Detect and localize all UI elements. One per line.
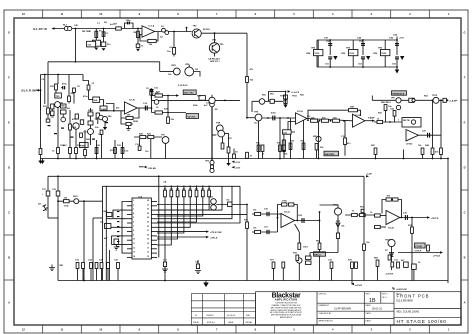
IC4 pin number marks left: [133, 200, 135, 258]
svg-text:TR6: TR6: [108, 116, 113, 118]
wire y218 inner: [93, 217, 103, 219]
svg-text:+FT.LE: +FT.LE: [433, 256, 441, 258]
wire IC6 input b: [374, 226, 386, 228]
wire elbow x83: [83, 75, 89, 86]
feedback loop IC6: [382, 200, 402, 218]
transistor TR1 internals: [195, 30, 199, 37]
regulator REG1: [314, 50, 323, 56]
junction bus a: [83, 280, 85, 282]
junction psu3b: [396, 66, 398, 68]
svg-text:R19: R19: [117, 145, 122, 147]
wire R64 top link: [295, 224, 300, 232]
wire C5 lead: [150, 95, 152, 99]
svg-text:REV.RE.2: REV.RE.2: [381, 102, 392, 104]
capacitor C9: [87, 85, 90, 90]
svg-text:OF 4: OF 4: [382, 297, 387, 299]
wire x159 vertical: [158, 176, 160, 257]
svg-text:REV: REV: [366, 294, 371, 296]
capacitor C2 bars: [127, 22, 129, 25]
svg-text:7915: 7915: [349, 53, 355, 55]
wire PSU left edge: [316, 40, 318, 67]
wire TR15 drop: [391, 247, 393, 270]
svg-text:AMPLIFICATION: AMPLIFICATION: [275, 298, 298, 302]
wire up x114: [106, 104, 114, 111]
wire bus a: [273, 268, 275, 280]
wire ladder1 drop: [164, 269, 166, 281]
wire branch lower: [252, 231, 278, 233]
junction: [173, 31, 175, 33]
resistor R11: [68, 96, 71, 102]
svg-text:IC5-A: IC5-A: [284, 210, 290, 213]
wire bus e: [377, 266, 379, 280]
capacitor C53: [361, 57, 365, 59]
ground left c: [114, 244, 119, 250]
ground arrow 1AFS: [283, 105, 287, 108]
junction x364 y215: [363, 214, 365, 216]
svg-text:10k: 10k: [149, 44, 153, 46]
junction x48: [75, 61, 77, 63]
wire R39: [316, 150, 318, 159]
box pair left b: [105, 224, 111, 229]
resistor RL4: [183, 190, 186, 197]
junction y201 b: [83, 200, 85, 202]
resistor RL6: [195, 190, 198, 197]
junction stub: [186, 27, 188, 29]
wire +15V tick: [396, 37, 398, 41]
arrow TR.SY.SW: [206, 230, 209, 232]
svg-text:22n: 22n: [95, 127, 99, 129]
transistor TR9: [255, 114, 262, 121]
ground arrow PSU bottom: [395, 70, 399, 74]
transistor TR4: [73, 123, 79, 129]
resistor R68 on x364: [363, 244, 366, 250]
svg-text:HT STAGE 100/60: HT STAGE 100/60: [397, 319, 447, 325]
wire TR8 drop: [222, 137, 224, 147]
wire R64 stub: [298, 232, 300, 243]
op-amp IC2-A: [296, 113, 307, 124]
svg-text:4k7: 4k7: [170, 188, 173, 191]
svg-text:VR7: VR7: [391, 98, 396, 100]
resistor R4: [137, 31, 140, 37]
wire C54 vertical: [396, 40, 398, 55]
regulator REG3: [381, 50, 390, 56]
resistor R7 on vertical: [246, 152, 249, 158]
svg-text:10k: 10k: [253, 209, 257, 211]
svg-text:5: 5: [293, 328, 295, 332]
box stack d1: [96, 113, 99, 118]
junction IC6 out: [401, 217, 403, 219]
svg-text:SW1: SW1: [73, 196, 79, 198]
ground arrow bottom bus: [203, 283, 209, 288]
svg-text:VR5: VR5: [341, 53, 346, 55]
wire y201 feed: [58, 200, 103, 202]
wire x150 vertical: [150, 139, 152, 159]
resistor R60: [255, 212, 261, 215]
svg-text:13: 13: [133, 252, 135, 254]
svg-text:100k: 100k: [64, 206, 69, 208]
resistor R30 hang: [257, 145, 260, 151]
svg-text:SEE NT 1: SEE NT 1: [210, 61, 221, 63]
resistor R2 small: [101, 42, 106, 47]
box bus d: [351, 262, 354, 268]
resistor R3 on wire: [116, 27, 122, 30]
wire branch upper: [252, 213, 281, 215]
junction h2 a: [44, 74, 46, 76]
resistor R5 feedback: [148, 39, 156, 42]
svg-text:TR15: TR15: [385, 240, 391, 242]
diode D5: [228, 202, 232, 207]
wire x101.5 vertical: [101, 134, 103, 158]
wire R1 leads: [95, 29, 97, 43]
capacitor C15 top: [150, 90, 154, 92]
svg-text:TR5: TR5: [95, 119, 100, 121]
wire R32: [279, 118, 281, 159]
svg-text:ECN No.: ECN No.: [207, 322, 215, 324]
svg-text:100k: 100k: [350, 106, 356, 108]
svg-text:R44: R44: [425, 144, 430, 147]
svg-text:TR2: TR2: [212, 39, 217, 41]
diode D4: [43, 205, 47, 211]
wire C23: [164, 267, 166, 269]
svg-text:05-01-10: 05-01-10: [372, 308, 383, 311]
svg-text:DATE: DATE: [228, 321, 234, 324]
value box FOOT tag: [415, 243, 426, 248]
ground C18: [282, 150, 286, 153]
cap D: [107, 263, 110, 269]
svg-text:+OUT.R: +OUT.R: [431, 218, 439, 220]
wire stack lead: [285, 92, 287, 105]
resistor R64 hang: [298, 243, 301, 249]
wire vertical x40: [40, 75, 42, 111]
wire input chain: [54, 28, 142, 30]
wire mid stub: [233, 149, 235, 155]
resistor R14: [69, 148, 72, 154]
capacitor C50: [328, 44, 332, 46]
wire pot out: [194, 72, 200, 77]
capacitor C54: [395, 44, 399, 46]
wire 1AFS left drop: [251, 101, 253, 112]
resistor R31 hang: [261, 145, 264, 151]
resistor R66: [352, 213, 358, 216]
svg-text:R18: R18: [96, 145, 101, 147]
wire led stub: [393, 287, 395, 289]
junction lamp c: [447, 99, 449, 101]
wire R4 lead: [137, 29, 139, 45]
capacitor C24: [196, 264, 199, 269]
svg-text:C40: C40: [74, 24, 79, 27]
ferrite bead FB1: [64, 26, 68, 30]
reverb tank circle: [411, 120, 415, 124]
svg-text:C14: C14: [143, 102, 148, 105]
resistor R39 hang: [315, 144, 318, 150]
ladder labels: [164, 188, 211, 191]
wire C16 vertical: [139, 139, 141, 146]
diode D3: [233, 154, 236, 159]
arrow +15V a: [232, 161, 235, 163]
ground arrow PSU cell2: [366, 56, 370, 60]
svg-text:1.5K AB: 1.5K AB: [148, 167, 157, 170]
misc dark mark f: [48, 125, 51, 126]
misc dark mark a: [61, 128, 64, 129]
svg-text:R52: R52: [300, 95, 305, 97]
svg-text:RE.TA: RE.TA: [403, 119, 410, 122]
junction psu2: [362, 39, 364, 41]
pot circle y100: [209, 97, 215, 103]
resistor R24: [167, 117, 170, 123]
wire C9 lower: [88, 90, 90, 100]
svg-text:2: 2: [133, 204, 134, 206]
wire C50 vertical: [329, 40, 331, 55]
svg-text:ISS1: ISS1: [246, 315, 251, 317]
capacitor C3: [136, 44, 140, 47]
resistor RL3: [176, 190, 179, 197]
resistor R26: [148, 135, 154, 138]
box stack c1: [75, 114, 78, 119]
wire C1 lead: [103, 29, 105, 43]
svg-text:DATE: DATE: [366, 304, 372, 307]
second loop: [121, 118, 126, 124]
wire lower branch: [152, 112, 187, 114]
svg-text:470n: 470n: [271, 111, 277, 114]
wire rail left drop: [40, 159, 42, 161]
svg-text:DATE: DATE: [366, 319, 372, 322]
wire to IC1-B input: [89, 99, 93, 101]
misc dark mark d: [92, 139, 95, 140]
svg-text:B: B: [464, 256, 466, 260]
svg-text:12: 12: [22, 12, 25, 16]
svg-text:+1.A.FS: +1.A.FS: [291, 91, 300, 94]
resistor RL5: [189, 190, 192, 197]
zone letters left/right: [8, 31, 466, 305]
svg-text:MID: MID: [313, 136, 317, 138]
svg-text:R41: R41: [378, 112, 383, 115]
resistor R47 left: [374, 148, 377, 154]
svg-text:F: F: [464, 76, 466, 80]
svg-text:26: 26: [147, 209, 149, 211]
junction rail a: [57, 158, 59, 160]
capacitor C16: [138, 146, 141, 150]
op-amp IC5-A: [281, 214, 295, 228]
svg-text:C26: C26: [264, 209, 269, 211]
ground under C1: [102, 48, 106, 51]
ladder junction dots: [164, 186, 210, 188]
svg-text:10k: 10k: [366, 242, 370, 244]
wire x115 vertical: [114, 140, 116, 159]
svg-text:C9: C9: [92, 83, 96, 85]
svg-text:28: 28: [147, 200, 149, 202]
svg-text:R32: R32: [277, 142, 282, 144]
svg-text:1: 1: [398, 120, 400, 122]
IC4 left pins: [127, 202, 132, 258]
capacitor C5: [150, 91, 153, 96]
node GA.RT.IN arrow: [52, 27, 55, 29]
junction rail h: [440, 158, 442, 160]
svg-text:CA.RE.ADJ: CA.RE.ADJ: [208, 57, 221, 60]
resistor R42: [393, 111, 396, 117]
wire reg2 leads: [352, 40, 354, 50]
stack R52: [284, 95, 288, 99]
op-amp IC3: [406, 130, 418, 141]
capacitor C22: [56, 191, 60, 196]
wire vertical x48 preamp: [47, 62, 49, 120]
svg-text:+TR.SY.SW: +TR.SY.SW: [210, 232, 223, 234]
svg-text:FRONT PCB: FRONT PCB: [397, 294, 430, 299]
resistor R10: [55, 84, 58, 90]
svg-text:7805: 7805: [381, 53, 387, 55]
svg-text:C8: C8: [77, 86, 81, 88]
capacitor C19: [343, 138, 346, 144]
svg-text:+15V: +15V: [399, 38, 405, 40]
resistor R46: [421, 148, 424, 154]
resistor R33 hang: [283, 145, 286, 151]
svg-text:B: B: [8, 256, 10, 260]
ground C24: [195, 271, 201, 274]
ground arrow PSU cell1: [333, 56, 337, 60]
op-amp IC2-B feedback top: [308, 110, 361, 120]
svg-text:PRESENCE: PRESENCE: [392, 93, 405, 95]
pot circle top x212: [210, 102, 215, 107]
svg-text:4k7: 4k7: [195, 188, 198, 191]
resistor R45: [440, 148, 443, 154]
resistor R12: [47, 108, 50, 114]
svg-text:ISSUE: ISSUE: [193, 322, 200, 324]
svg-text:C7: C7: [97, 23, 101, 25]
wire right vertical x448: [447, 159, 449, 284]
wire vertical x45: [44, 75, 46, 105]
svg-text:R53: R53: [424, 95, 429, 97]
jack circle: [412, 99, 415, 102]
svg-text:1M: 1M: [215, 109, 218, 111]
svg-text:01: 01: [195, 315, 198, 317]
wire stack a: [51, 109, 53, 112]
wire TR14 drop: [298, 263, 300, 280]
feedback IC2A loop: [288, 122, 296, 133]
capacitor C45: [39, 149, 42, 155]
wire R46 stub: [422, 154, 424, 158]
svg-text:R2: R2: [104, 22, 108, 24]
wire TR1 to right: [201, 32, 247, 34]
svg-text:C28: C28: [298, 215, 303, 217]
transistor TR7: [162, 137, 169, 144]
capacitor C12: [100, 130, 103, 134]
svg-text:A: A: [464, 301, 466, 305]
feedback return wire: [140, 35, 148, 42]
junction: [214, 32, 216, 34]
svg-text:470p: 470p: [62, 82, 67, 85]
op-amp IC1-B: [125, 102, 138, 114]
svg-text:5.LF.R.LF: 5.LF.R.LF: [178, 85, 188, 87]
block rect outline: [102, 186, 104, 280]
svg-text:3: 3: [371, 12, 373, 16]
diode D1 pair: [162, 28, 166, 32]
junction eq a: [267, 117, 269, 119]
svg-text:FT.SW: FT.SW: [415, 246, 422, 248]
svg-text:1k: 1k: [418, 262, 421, 264]
svg-text:TR8: TR8: [216, 122, 221, 124]
wire IC2B out: [365, 120, 372, 122]
svg-text:10: 10: [133, 239, 135, 241]
junction bus b: [164, 280, 166, 282]
wire IC1-B out: [137, 107, 151, 109]
svg-text:D7: D7: [385, 250, 389, 252]
misc dark mark b: [54, 133, 57, 134]
resistor R13: [57, 148, 60, 154]
wire main rail y158.5: [41, 158, 449, 160]
resistor R44: [431, 148, 434, 154]
svg-text:47k: 47k: [116, 107, 120, 110]
capacitor C11: [80, 133, 83, 137]
wire x84 drop: [83, 201, 85, 280]
svg-text:+5.FS.R: +5.FS.R: [385, 274, 394, 276]
box bus b: [296, 255, 299, 261]
svg-text:100k: 100k: [282, 201, 288, 203]
wire LFS stub: [351, 281, 353, 284]
svg-text:REV: REV: [172, 65, 177, 67]
svg-text:D3: D3: [235, 151, 239, 153]
junction h2 b: [57, 74, 59, 76]
ground mid left: [49, 265, 55, 271]
value box BOOST: [87, 41, 96, 47]
wire H2 feed: [41, 74, 84, 76]
resistor R36 series: [322, 119, 329, 122]
svg-text:5: 5: [293, 12, 295, 16]
svg-text:D1: D1: [161, 26, 165, 28]
junction eq d: [319, 120, 321, 122]
svg-text:10k: 10k: [253, 227, 257, 229]
svg-text:C38: C38: [195, 262, 200, 264]
svg-text:1k: 1k: [52, 151, 55, 153]
svg-text:25: 25: [147, 213, 149, 215]
resistor R75: [427, 245, 430, 251]
ground arrow under rail: [40, 161, 44, 165]
value box 1M: [93, 40, 101, 46]
svg-text:5: 5: [133, 217, 134, 219]
capacitor C13: [126, 122, 131, 125]
arrow +LFS.R below bus: [351, 283, 354, 285]
svg-text:DRG No.: DRG No.: [319, 294, 328, 296]
junction x168b: [167, 112, 169, 114]
wire D4 link: [46, 207, 48, 209]
svg-text:C51: C51: [325, 63, 330, 65]
arrow SP.LE: [206, 236, 209, 238]
wire reg3 bottom lead: [384, 56, 386, 67]
junction psu1: [329, 39, 331, 41]
svg-text:4k7: 4k7: [189, 188, 192, 191]
svg-text:4: 4: [332, 12, 334, 16]
wire bus c: [331, 268, 333, 280]
resistor R40 fb: [349, 109, 358, 112]
resistor R27: [221, 143, 224, 149]
wire x247 to bus: [246, 205, 248, 281]
wire ground stub: [205, 281, 207, 283]
junction x159: [158, 175, 160, 177]
wire x90 vertical: [90, 108, 92, 145]
wire R34: [290, 118, 292, 159]
wire x345 vertical: [344, 121, 346, 156]
svg-text:14: 14: [133, 255, 135, 258]
wire IC2A out: [307, 119, 353, 121]
svg-text:C: C: [8, 211, 10, 215]
svg-text:R79: R79: [348, 260, 353, 262]
wire x69 vertical: [68, 75, 70, 104]
svg-text:R22: R22: [156, 92, 161, 94]
misc mark column: [117, 211, 119, 247]
wire R10 lead: [57, 75, 59, 85]
svg-text:6: 6: [133, 222, 134, 224]
junction rail d: [279, 158, 281, 160]
svg-text:R47: R47: [371, 144, 376, 147]
wire C55 vertical: [396, 59, 398, 67]
